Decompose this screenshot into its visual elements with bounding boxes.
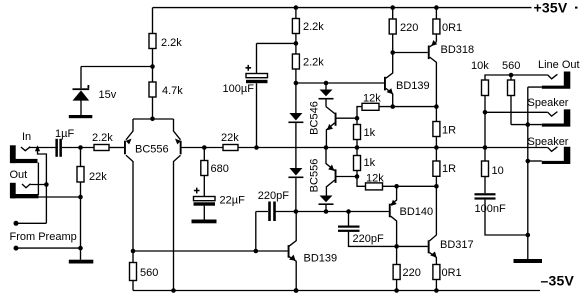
capacitor 220pF (VAS) [268, 202, 271, 222]
node BD318 base node [390, 50, 395, 55]
node BD140 emitter / 12k [394, 184, 399, 189]
jack Speaker 2 tip [548, 147, 558, 152]
jack Speaker 2 body [542, 147, 571, 164]
resistor 10k [482, 80, 489, 96]
resistor 12k lower [357, 177, 366, 187]
node mid rail 1k [355, 145, 360, 150]
wire main mid rail segment In-tip to 1uF [29, 147, 55, 149]
svg-text:BD317: BD317 [440, 239, 474, 251]
svg-text:10k: 10k [471, 60, 489, 72]
transistor Q1 BC556 left [126, 119, 133, 140]
node top rail 0R1 column [434, 5, 439, 10]
node emitter rail junction [150, 117, 155, 122]
node feedback node [202, 145, 207, 150]
jack Line Out body [542, 72, 571, 89]
wire preamp riser [16, 185, 46, 224]
resistor 12k upper [357, 107, 362, 119]
svg-text:1R: 1R [442, 163, 456, 175]
svg-text:BC556: BC556 [135, 144, 169, 156]
transistor BC546 (bias) [326, 107, 335, 114]
node bias bottom left [294, 209, 299, 214]
svg-text:22µF: 22µF [220, 195, 246, 207]
ground (input) [69, 260, 94, 264]
resistor 560 [132, 251, 134, 291]
wire shared emitter rail [133, 118, 174, 120]
jack Out body [10, 183, 16, 199]
wire bias bottom link [276, 211, 389, 213]
switch contact arrow (In jack) [38, 151, 47, 185]
node zobel ground join [526, 233, 531, 238]
wire BC556 bias base [337, 176, 358, 178]
jack In body [10, 145, 16, 163]
wire speaker2 sleeve [528, 160, 542, 162]
wire VAS base line [133, 250, 288, 252]
svg-text:BD139: BD139 [396, 80, 430, 92]
wire BC546 base [337, 117, 358, 119]
jack Out tip contact [22, 184, 31, 188]
resistor 680 [203, 148, 205, 197]
svg-text:15v: 15v [99, 89, 117, 101]
svg-text:BD318: BD318 [441, 44, 475, 56]
svg-text:4.7k: 4.7k [162, 85, 183, 97]
node BD317 base node [394, 244, 399, 249]
svg-text:2.2k: 2.2k [161, 37, 182, 49]
node From Preamp signal terminal [14, 221, 19, 226]
capacitor 220pF (driver) [348, 212, 350, 226]
node VAS base tap [254, 249, 259, 254]
wire 1uF to 2.2k input [62, 147, 94, 149]
node NT upper bias node [355, 116, 360, 121]
svg-text:10: 10 [492, 165, 504, 177]
resistor 220 upper [392, 8, 394, 53]
transistor BD140 [391, 186, 397, 204]
resistor 2.2k (upper bias) [149, 34, 156, 49]
node 560 top [509, 73, 514, 78]
node 1R lower bottom [434, 184, 439, 189]
jack In tip contact [21, 147, 30, 151]
capacitor 22uF [194, 197, 216, 201]
node bias link left [294, 81, 299, 86]
node top rail tiny end mark [575, 7, 578, 9]
wire bias top link [296, 82, 385, 84]
wire to ground right [527, 235, 529, 259]
resistor 560 (line out) [510, 75, 512, 125]
svg-text:0R1: 0R1 [442, 22, 462, 34]
wire 2.2k to BC556 left base [109, 147, 124, 149]
svg-text:Speaker: Speaker [528, 97, 569, 109]
resistor 2.2k (chain lower) [292, 54, 299, 69]
node output rail x485 [483, 145, 488, 150]
wire zener branch [81, 67, 153, 116]
wire Out tip to preamp riser [30, 184, 46, 186]
jack Line Out tip [548, 74, 558, 79]
svg-text:1k: 1k [364, 127, 376, 139]
node mid rail x326 [324, 145, 329, 150]
node 1R upper top [434, 104, 439, 109]
ground (zener) [69, 115, 93, 118]
node mid rail 1R [434, 145, 439, 150]
svg-text:220: 220 [403, 267, 421, 279]
wire sleeve bus down [527, 125, 529, 235]
resistor 22k feedback [223, 145, 238, 151]
wire In sleeve down [37, 163, 39, 195]
resistor 2.2k (input) [94, 145, 109, 151]
jack Speaker 1 tip [548, 112, 558, 117]
resistor 220 lower [396, 246, 398, 290]
svg-text:12k: 12k [363, 93, 381, 105]
svg-text:2.2k: 2.2k [303, 21, 324, 33]
node input junction [78, 145, 83, 150]
node 22k bottom [78, 195, 83, 200]
wire 22k input column [80, 148, 82, 260]
svg-text:2.2k: 2.2k [303, 57, 324, 69]
svg-text:BC556: BC556 [309, 159, 321, 193]
capacitor 100uF [257, 43, 296, 147]
resistor 1k upper [356, 118, 358, 147]
svg-text:560: 560 [502, 60, 520, 72]
node 100uF bottom [254, 145, 259, 150]
svg-text:680: 680 [211, 163, 229, 175]
wire bias column x=152 top [152, 8, 154, 119]
node BD139 emitter / 12k [390, 104, 395, 109]
diode D1 [295, 83, 297, 212]
svg-text:22k: 22k [89, 171, 107, 183]
svg-text:+35V: +35V [534, 0, 568, 16]
svg-text:Line Out: Line Out [538, 59, 580, 71]
node top rail 220 column [390, 5, 395, 10]
node sleeve bus 1 [526, 122, 531, 127]
wire -35V bottom rail [133, 290, 540, 292]
node speaker tap [483, 110, 488, 115]
wire BD317 base [397, 245, 428, 247]
transistor BD318 [430, 42, 437, 47]
ground (right) [514, 259, 543, 263]
svg-text:Out: Out [10, 169, 28, 181]
svg-text:1µF: 1µF [55, 128, 74, 140]
svg-text:2.2k: 2.2k [92, 132, 113, 144]
svg-text:100µF: 100µF [223, 83, 255, 95]
svg-text:220pF: 220pF [353, 233, 384, 245]
svg-text:1k: 1k [364, 157, 376, 169]
resistor 0R1 upper [435, 8, 437, 42]
svg-text:In: In [22, 131, 31, 143]
wire BC556 right base to 22k feedback [181, 147, 223, 149]
wire Out sleeve to 22k bottom [39, 196, 81, 198]
node ground column join [78, 246, 83, 251]
transistor BD139 (VAS) [289, 212, 296, 247]
wire From Preamp ground [16, 247, 81, 249]
svg-text:220pF: 220pF [258, 190, 289, 202]
wire +35V top rail [153, 7, 532, 9]
zener diode 15v [73, 90, 90, 100]
transistor BD139 (driver upper) [386, 53, 393, 79]
svg-text:From Preamp: From Preamp [10, 231, 77, 243]
wire line out divider top [485, 75, 548, 80]
svg-text:BD140: BD140 [400, 206, 434, 218]
node 0R1 lower bottom [434, 288, 439, 293]
resistor 1R lower [435, 148, 437, 187]
resistor 0R1 lower [433, 265, 440, 280]
node bias divider junction [150, 64, 155, 69]
node 220pF2 tap [346, 209, 351, 214]
svg-text:Speaker: Speaker [528, 136, 569, 148]
wire feedback/output rail across to Speaker [238, 147, 548, 149]
transistor BC556 (bias) [326, 148, 335, 171]
svg-text:560: 560 [140, 267, 158, 279]
svg-text:12k: 12k [366, 173, 384, 185]
diode D3 [325, 83, 327, 107]
node bottom rail BC556R collector [171, 288, 176, 293]
node From Preamp ground terminal [14, 246, 19, 251]
svg-text:220: 220 [400, 22, 418, 34]
svg-text:100nF: 100nF [475, 203, 506, 215]
diode D4 [320, 196, 333, 203]
svg-text:–35V: –35V [541, 273, 575, 289]
node 560 top [131, 249, 136, 254]
capacitor 100nF [475, 193, 496, 195]
node NB lower bias node [355, 174, 360, 179]
resistor 2.2k (chain upper) [295, 8, 297, 83]
node VAS emitter bottom [294, 288, 299, 293]
resistor 4.7k [149, 82, 156, 97]
resistor 10 (zobel) [484, 148, 486, 194]
capacitor C 1uF [55, 139, 58, 157]
diode D2 [289, 168, 302, 176]
ground (22uF) [192, 220, 217, 224]
resistor 1k lower [356, 148, 358, 177]
wire 10k bottom column [484, 96, 486, 148]
svg-text:22k: 22k [221, 132, 239, 144]
wire Line Out sleeve [528, 87, 542, 125]
transistor BD317 [430, 186, 437, 241]
jack Speaker 1 body [542, 109, 571, 126]
node sleeve bus 2 [526, 159, 531, 164]
wire BD318 base [393, 52, 428, 54]
svg-text:1R: 1R [442, 125, 456, 137]
node bottom rail dots [294, 288, 299, 293]
node top rail 2.2k column [294, 5, 299, 10]
wire speaker1 line [485, 111, 548, 113]
resistor 22k (input) [77, 167, 84, 183]
node Out tip junction [44, 182, 49, 187]
svg-text:BC546: BC546 [309, 101, 321, 135]
svg-text:BD139: BD139 [304, 253, 338, 265]
resistor 1R upper [435, 107, 437, 148]
svg-text:0R1: 0R1 [442, 267, 462, 279]
node 100uF top junction [294, 41, 299, 46]
node bias bottom mid [324, 209, 329, 214]
transistor Q2 BC556 right [174, 119, 181, 140]
node bias link mid [324, 81, 329, 86]
wire speaker1 sleeve / 560 bottom [511, 124, 542, 126]
node 220 lower bottom [394, 288, 399, 293]
